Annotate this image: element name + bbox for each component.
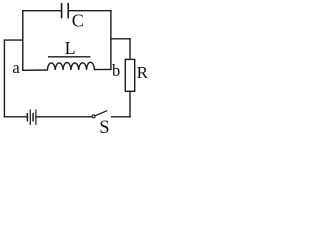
svg-text:R: R — [137, 63, 149, 82]
wire right vertical (top corner to node b) — [110, 11, 112, 70]
svg-text:a: a — [12, 58, 20, 77]
capacitor C1 left plate — [61, 4, 63, 18]
label L underline — [49, 56, 90, 58]
battery cell short plate 3 — [32, 114, 34, 121]
wire left vertical (top corner to node a) — [22, 11, 24, 71]
svg-text:L: L — [65, 38, 76, 58]
wire bottom-right segment — [112, 116, 130, 118]
capacitor C1 right plate — [67, 4, 69, 18]
wire top-left horizontal — [23, 10, 61, 12]
svg-text:b: b — [112, 61, 120, 80]
battery cell short plate 1 — [26, 114, 28, 121]
wire bottom-left segment — [4, 116, 27, 118]
wire resistor bottom lead — [129, 91, 131, 117]
wire left branch horizontal at T-junction — [4, 39, 22, 41]
wire resistor top lead — [129, 39, 131, 60]
battery cell tall plate 4 — [35, 110, 37, 124]
wire left outer vertical — [3, 40, 5, 117]
resistor R box — [125, 59, 134, 91]
switch S blade — [95, 111, 107, 116]
wire right branch horizontal at T-junction — [111, 38, 130, 40]
inductor L coil — [23, 62, 111, 70]
switch S pivot circle — [92, 115, 95, 118]
svg-text:C: C — [72, 11, 84, 31]
wire bottom middle segment — [36, 116, 92, 118]
svg-text:S: S — [99, 118, 109, 135]
wire top-right horizontal — [69, 10, 111, 12]
battery cell tall plate 2 — [29, 110, 31, 124]
